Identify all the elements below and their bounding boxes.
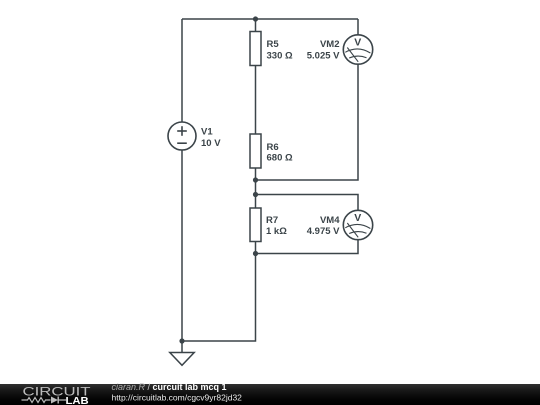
voltmeter VM4 [307, 210, 373, 239]
wire R7 to node C [255, 242, 257, 254]
wire VM4 top branch [256, 195, 359, 211]
wire top horizontal [182, 18, 358, 20]
svg-text:LAB: LAB [66, 396, 90, 405]
svg-text:680 Ω: 680 Ω [267, 153, 293, 164]
svg-text:V: V [354, 212, 361, 224]
svg-text:V: V [354, 36, 361, 48]
wire ground stub [181, 341, 183, 353]
node A (top junction) [253, 16, 258, 21]
footer bar [0, 384, 540, 405]
svg-text:4.975 V: 4.975 V [307, 226, 340, 237]
svg-text:R5: R5 [267, 39, 280, 50]
svg-text:10 V: 10 V [201, 138, 221, 149]
voltmeter VM2 [307, 35, 373, 64]
resistor R5 [250, 32, 293, 66]
resistor R7 [250, 208, 287, 242]
resistor R6 [250, 134, 293, 168]
node B1 (VM2 return junction) [253, 177, 258, 182]
svg-text:ciaran.R / curcuit lab mcq 1: ciaran.R / curcuit lab mcq 1 [112, 382, 227, 392]
svg-text:VM2: VM2 [320, 39, 340, 50]
svg-text:330 Ω: 330 Ω [267, 50, 293, 61]
svg-text:R7: R7 [266, 215, 278, 226]
svg-text:R6: R6 [267, 142, 279, 153]
svg-text:VM4: VM4 [320, 215, 340, 226]
wire node C down to bottom rail [182, 254, 256, 342]
wire VM4 bottom return [256, 240, 359, 254]
wire left vertical top (top rail to V1) [181, 19, 183, 122]
wire R6 to node B [255, 168, 257, 195]
node D (ground junction) [179, 338, 184, 343]
voltage source V1 [168, 122, 221, 150]
wire left vertical bottom (V1 to bottom node) [181, 150, 183, 341]
ground [170, 353, 194, 366]
wire node B to R7 [255, 195, 257, 209]
wire VM2 bottom return [256, 65, 359, 181]
svg-text:V1: V1 [201, 127, 213, 138]
CircuitLab logo [22, 386, 91, 405]
svg-text:1 kΩ: 1 kΩ [266, 226, 287, 237]
wire VM2 top drop [357, 19, 359, 35]
svg-text:http://circuitlab.com/cgcv9yr8: http://circuitlab.com/cgcv9yr82jd32 [112, 393, 243, 403]
node C (R7 bottom junction) [253, 251, 258, 256]
node B2 (VM4 branch junction) [253, 192, 258, 197]
wire node A to R5 [255, 19, 257, 32]
wire R5 to R6 [255, 66, 257, 135]
svg-text:5.025 V: 5.025 V [307, 50, 340, 61]
